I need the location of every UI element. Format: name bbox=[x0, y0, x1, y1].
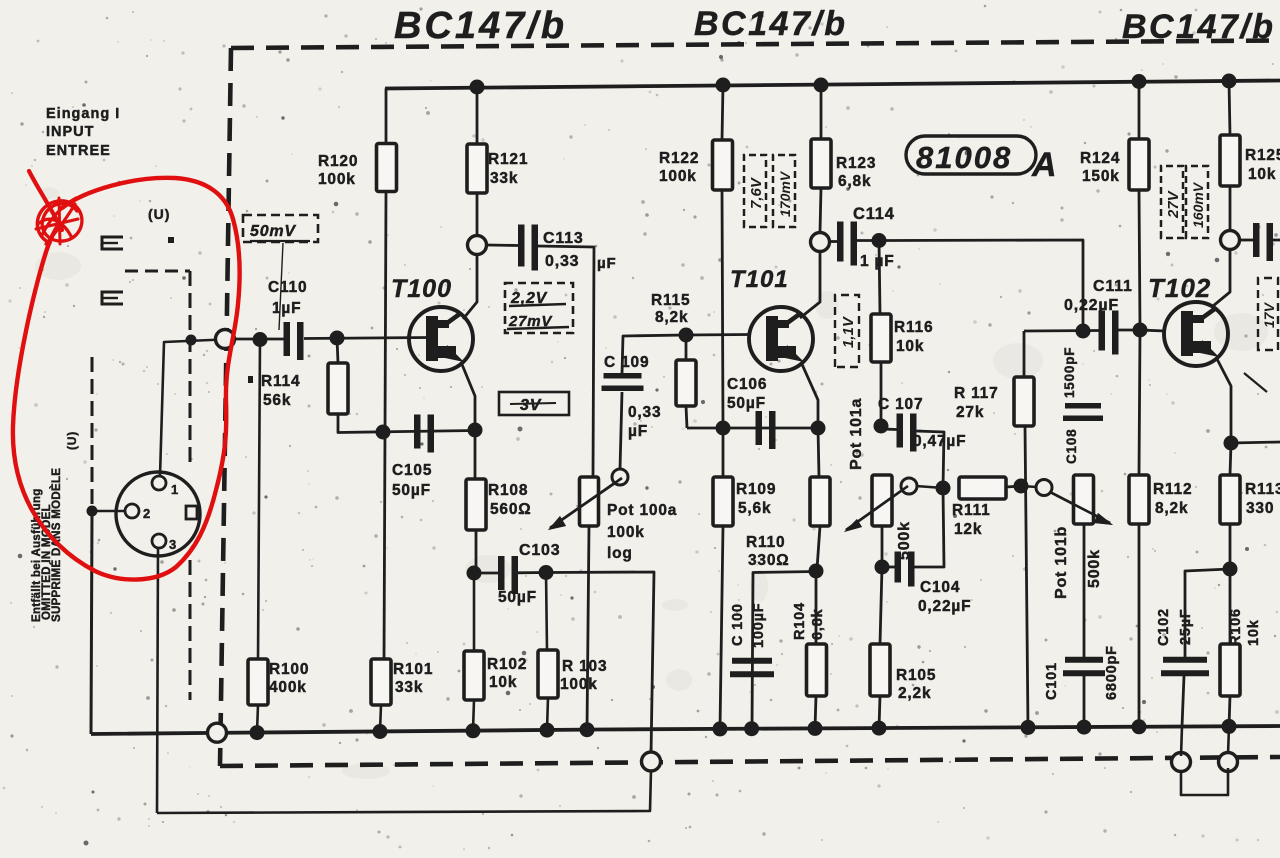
svg-text:560Ω: 560Ω bbox=[490, 501, 532, 518]
svg-text:56k: 56k bbox=[263, 392, 291, 409]
svg-text:C103: C103 bbox=[519, 542, 560, 559]
svg-text:100k: 100k bbox=[560, 676, 598, 693]
svg-text:T102: T102 bbox=[1148, 273, 1211, 303]
svg-text:C101: C101 bbox=[1044, 662, 1060, 700]
svg-text:C108: C108 bbox=[1064, 429, 1079, 464]
svg-text:R116: R116 bbox=[894, 319, 933, 336]
svg-text:R101: R101 bbox=[393, 661, 433, 678]
svg-text:µF: µF bbox=[628, 423, 648, 440]
svg-text:400k: 400k bbox=[269, 679, 307, 696]
svg-text:log: log bbox=[607, 545, 633, 562]
svg-text:0,33: 0,33 bbox=[628, 404, 661, 421]
svg-text:C104: C104 bbox=[920, 579, 960, 596]
svg-text:2,2k: 2,2k bbox=[898, 685, 931, 702]
svg-text:17V: 17V bbox=[1261, 301, 1277, 328]
svg-text:R102: R102 bbox=[487, 656, 527, 673]
svg-text:R121: R121 bbox=[488, 151, 528, 168]
svg-text:100k: 100k bbox=[318, 171, 356, 188]
svg-text:100µF: 100µF bbox=[751, 603, 767, 648]
svg-text:Eingang I: Eingang I bbox=[46, 106, 120, 122]
svg-text:50µF: 50µF bbox=[498, 589, 537, 606]
svg-text:R106: R106 bbox=[1228, 608, 1244, 646]
svg-text:500k: 500k bbox=[1086, 549, 1103, 588]
svg-text:6,8k: 6,8k bbox=[810, 608, 826, 640]
svg-text:10k: 10k bbox=[1246, 619, 1262, 646]
svg-text:BC147/b: BC147/b bbox=[694, 5, 848, 43]
svg-text:10k: 10k bbox=[489, 674, 517, 691]
svg-text:330: 330 bbox=[1246, 500, 1274, 517]
svg-text:R112: R112 bbox=[1153, 481, 1192, 498]
svg-text:R105: R105 bbox=[896, 667, 936, 684]
svg-text:160mV: 160mV bbox=[1190, 181, 1206, 228]
svg-text:100k: 100k bbox=[659, 168, 697, 185]
svg-text:A: A bbox=[1031, 146, 1057, 184]
svg-text:R115: R115 bbox=[651, 292, 690, 309]
svg-text:T101: T101 bbox=[730, 266, 789, 293]
svg-text:C 107: C 107 bbox=[878, 396, 923, 413]
svg-text:R113: R113 bbox=[1245, 481, 1280, 498]
svg-text:BC147/b: BC147/b bbox=[1122, 8, 1276, 46]
svg-text:0,22µF: 0,22µF bbox=[1064, 297, 1119, 314]
svg-text:C113: C113 bbox=[543, 230, 584, 247]
svg-text:R114: R114 bbox=[261, 373, 300, 390]
svg-text:7,6V: 7,6V bbox=[748, 176, 765, 209]
svg-text:100k: 100k bbox=[607, 524, 645, 541]
svg-text:C111: C111 bbox=[1093, 278, 1133, 295]
svg-text:3V: 3V bbox=[520, 397, 542, 414]
svg-text:8,2k: 8,2k bbox=[655, 309, 688, 326]
svg-text:C106: C106 bbox=[727, 376, 767, 393]
svg-text:R108: R108 bbox=[488, 482, 528, 499]
svg-text:0,47µF: 0,47µF bbox=[913, 433, 966, 450]
svg-text:µF: µF bbox=[597, 255, 616, 272]
svg-text:27k: 27k bbox=[956, 404, 984, 421]
svg-text:C114: C114 bbox=[853, 205, 895, 223]
svg-text:150k: 150k bbox=[1082, 168, 1120, 185]
svg-text:5,6k: 5,6k bbox=[738, 500, 771, 517]
svg-text:1 µF: 1 µF bbox=[860, 253, 895, 270]
svg-text:Pot 101a: Pot 101a bbox=[848, 398, 865, 470]
svg-text:33k: 33k bbox=[395, 679, 423, 696]
svg-text:R 117: R 117 bbox=[954, 385, 999, 402]
svg-text:50µF: 50µF bbox=[392, 482, 431, 499]
svg-text:81008: 81008 bbox=[916, 140, 1012, 175]
svg-text:R109: R109 bbox=[736, 481, 776, 498]
svg-text:25µF: 25µF bbox=[1178, 608, 1194, 645]
svg-text:R111: R111 bbox=[952, 502, 991, 519]
svg-text:170mV: 170mV bbox=[777, 170, 793, 217]
svg-text:(U): (U) bbox=[148, 206, 170, 222]
svg-text:R110: R110 bbox=[746, 534, 785, 551]
svg-text:33k: 33k bbox=[490, 170, 518, 187]
svg-text:Pot 101b: Pot 101b bbox=[1053, 526, 1070, 599]
svg-text:8,2k: 8,2k bbox=[1155, 500, 1188, 517]
svg-text:T100: T100 bbox=[391, 275, 452, 303]
svg-text:2: 2 bbox=[143, 506, 151, 521]
svg-text:6,8k: 6,8k bbox=[838, 173, 871, 190]
svg-text:1500pF: 1500pF bbox=[1062, 347, 1077, 398]
svg-text:C105: C105 bbox=[392, 462, 432, 479]
svg-text:R123: R123 bbox=[836, 155, 876, 172]
svg-text:C 100: C 100 bbox=[730, 603, 746, 646]
svg-text:3: 3 bbox=[169, 537, 177, 552]
svg-text:27V: 27V bbox=[1165, 189, 1182, 219]
svg-text:1,1V: 1,1V bbox=[840, 315, 857, 348]
svg-text:10k: 10k bbox=[896, 338, 924, 355]
svg-text:R 103: R 103 bbox=[562, 658, 607, 675]
svg-text:R100: R100 bbox=[269, 661, 309, 678]
svg-text:BC147/b: BC147/b bbox=[394, 5, 567, 47]
svg-text:C 109: C 109 bbox=[604, 354, 649, 371]
svg-text:R124: R124 bbox=[1080, 150, 1120, 167]
svg-text:C102: C102 bbox=[1156, 608, 1172, 646]
svg-text:6800pF: 6800pF bbox=[1104, 645, 1120, 700]
svg-text:1µF: 1µF bbox=[272, 300, 301, 317]
svg-text:12k: 12k bbox=[954, 521, 982, 538]
svg-text:Pot 100a: Pot 100a bbox=[607, 502, 677, 519]
svg-text:1: 1 bbox=[171, 482, 179, 497]
svg-text:INPUT: INPUT bbox=[46, 124, 95, 140]
svg-text:R122: R122 bbox=[659, 150, 699, 167]
svg-text:ENTREE: ENTREE bbox=[46, 143, 111, 159]
svg-text:R120: R120 bbox=[318, 153, 358, 170]
svg-text:R125: R125 bbox=[1245, 147, 1280, 164]
svg-text:50µF: 50µF bbox=[727, 395, 766, 412]
svg-text:330Ω: 330Ω bbox=[748, 552, 790, 569]
svg-text:50mV: 50mV bbox=[250, 223, 296, 240]
svg-text:C110: C110 bbox=[268, 279, 307, 296]
svg-text:R104: R104 bbox=[792, 602, 808, 640]
svg-text:(U): (U) bbox=[65, 431, 79, 450]
svg-text:0,33: 0,33 bbox=[545, 253, 579, 270]
svg-text:10k: 10k bbox=[1248, 166, 1276, 183]
svg-text:0,22µF: 0,22µF bbox=[918, 598, 971, 615]
